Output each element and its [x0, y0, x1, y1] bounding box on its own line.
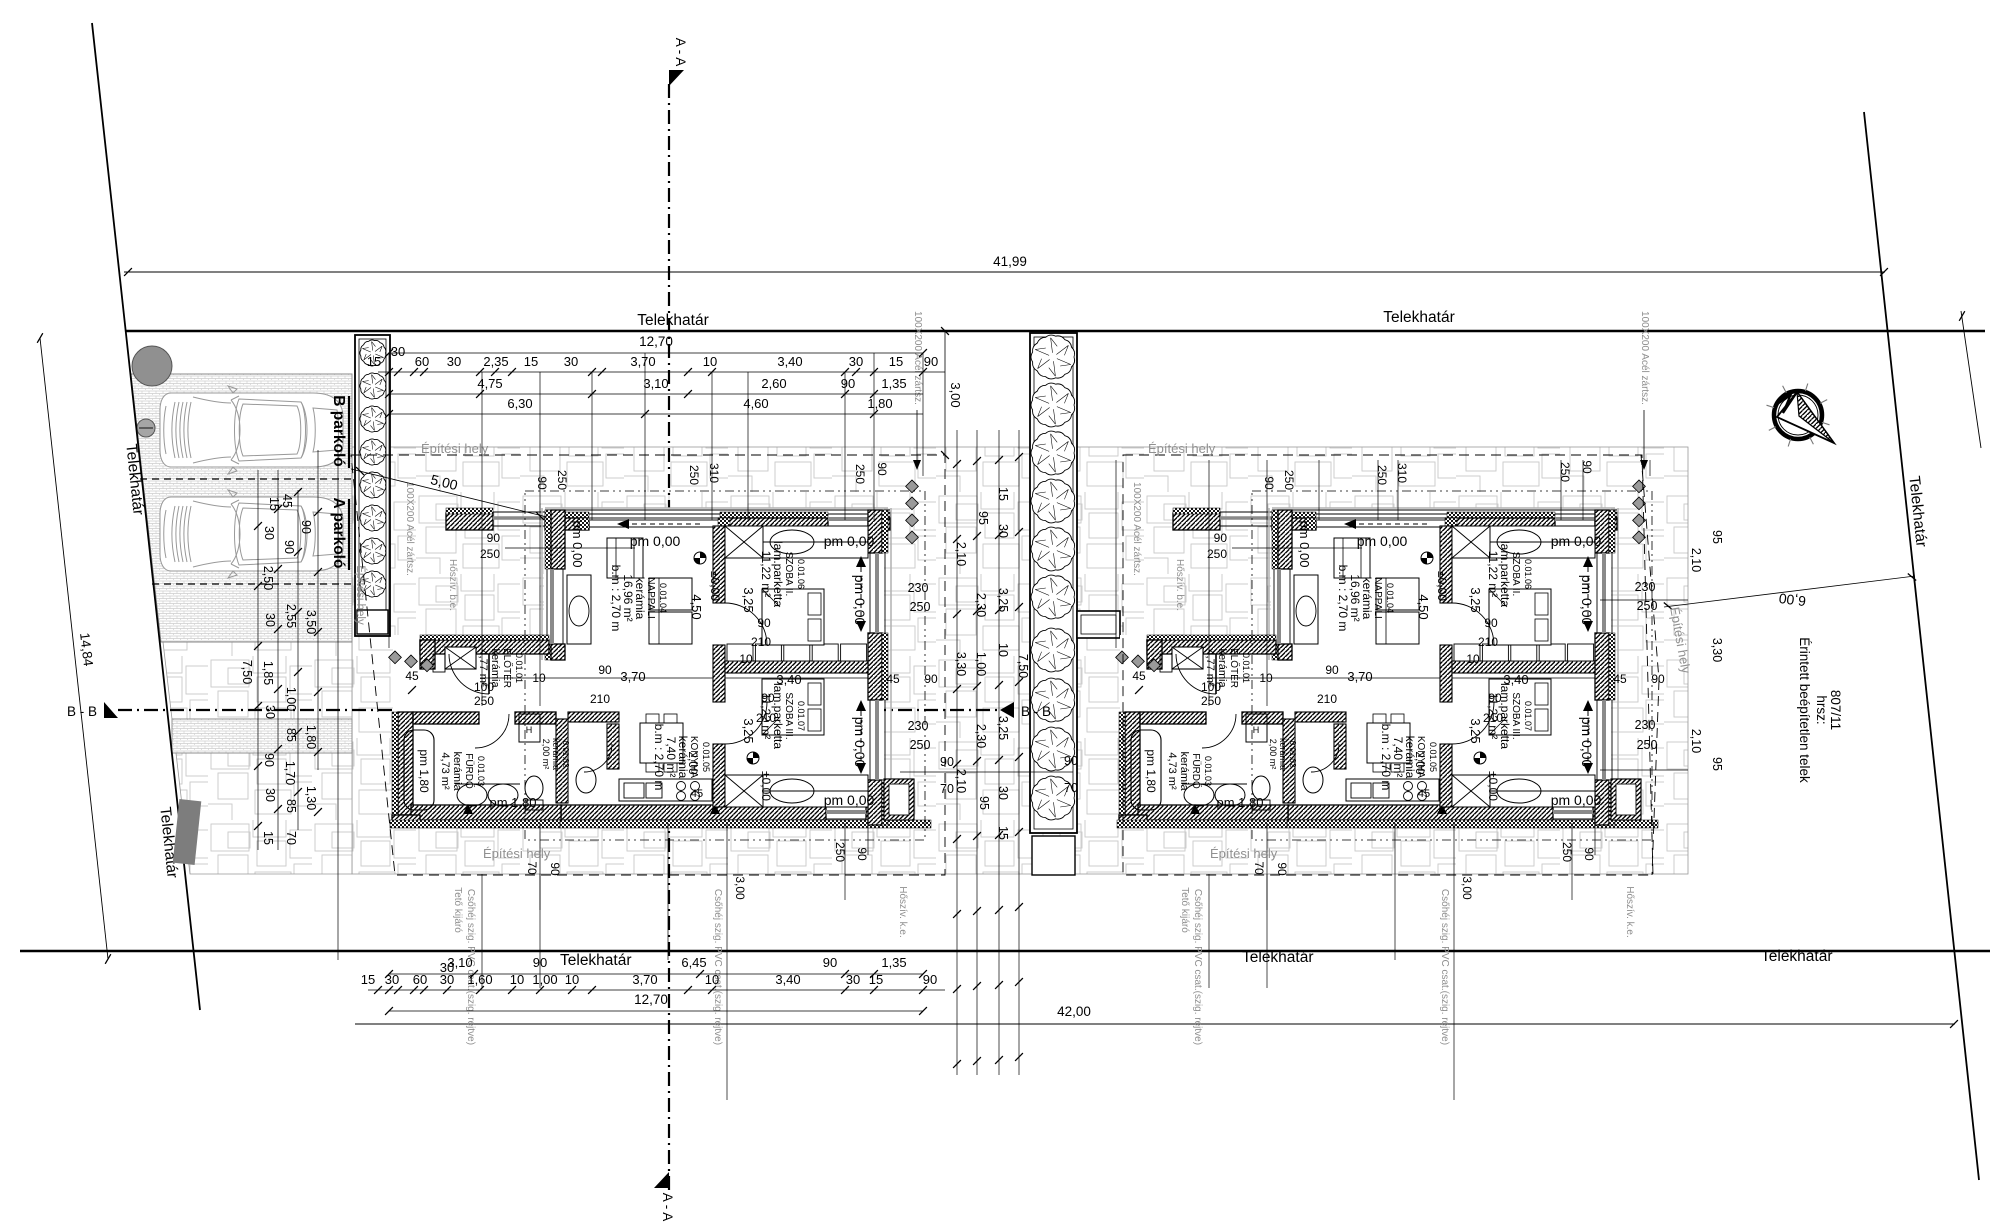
- svg-text:210: 210: [1483, 711, 1503, 725]
- svg-text:Csőhéj szig. PVC csat.(szig. r: Csőhéj szig. PVC csat.(szig. rejtve): [712, 889, 723, 1045]
- svg-text:B parkoló: B parkoló: [330, 395, 347, 466]
- svg-text:90: 90: [924, 354, 938, 369]
- svg-text:1,80: 1,80: [304, 725, 318, 749]
- svg-text:30: 30: [846, 972, 860, 987]
- svg-text:3,25: 3,25: [1468, 587, 1483, 612]
- svg-text:95: 95: [1710, 757, 1724, 771]
- svg-text:4,75: 4,75: [477, 376, 502, 391]
- svg-text:1,35: 1,35: [881, 376, 906, 391]
- svg-text:1,30: 1,30: [304, 786, 318, 810]
- svg-text:Építési hely: Építési hely: [483, 846, 551, 861]
- svg-text:3,30: 3,30: [954, 652, 968, 676]
- svg-text:2,35: 2,35: [483, 354, 508, 369]
- svg-text:Telekhatár: Telekhatár: [1383, 309, 1455, 326]
- svg-text:90: 90: [1325, 663, 1339, 677]
- svg-text:90: 90: [535, 476, 549, 490]
- svg-text:0.01.04: 0.01.04: [1385, 583, 1395, 613]
- svg-text:0.01.04: 0.01.04: [658, 583, 668, 613]
- svg-text:ELŐTÉR: ELŐTÉR: [1228, 648, 1242, 688]
- svg-text:6,30: 6,30: [507, 396, 532, 411]
- svg-text:10: 10: [1466, 652, 1480, 666]
- svg-text:807/11: 807/11: [1828, 690, 1843, 730]
- svg-text:kerámia: kerámia: [1360, 577, 1374, 620]
- svg-text:0.01.06: 0.01.06: [796, 559, 806, 589]
- svg-text:3,00: 3,00: [1460, 876, 1474, 900]
- svg-text:H: H: [526, 725, 533, 735]
- svg-text:90: 90: [1580, 460, 1594, 474]
- svg-text:kerámia: kerámia: [1278, 738, 1288, 770]
- svg-text:45: 45: [886, 672, 900, 686]
- svg-text:10: 10: [565, 972, 579, 987]
- svg-text:90: 90: [761, 691, 775, 705]
- svg-text:30: 30: [391, 344, 405, 359]
- svg-text:0.01.05: 0.01.05: [1428, 742, 1438, 772]
- svg-text:Építési hely: Építési hely: [1148, 441, 1216, 456]
- svg-text:95: 95: [977, 796, 991, 810]
- svg-text:Tető kijáró: Tető kijáró: [452, 887, 463, 933]
- svg-text:FÜRDŐ: FÜRDŐ: [1190, 753, 1204, 789]
- svg-text:0.01.06: 0.01.06: [1523, 559, 1533, 589]
- svg-text:90: 90: [1214, 531, 1228, 545]
- svg-text:30: 30: [262, 526, 276, 540]
- svg-text:±0,00: ±0,00: [1435, 571, 1449, 601]
- svg-text:230: 230: [908, 719, 929, 733]
- svg-text:3,30: 3,30: [1710, 638, 1724, 662]
- svg-text:250: 250: [910, 600, 931, 614]
- svg-text:Telekhatár: Telekhatár: [560, 952, 632, 969]
- svg-text:NAPPALI: NAPPALI: [645, 577, 656, 619]
- svg-text:70: 70: [525, 861, 539, 875]
- svg-text:pm 0,00: pm 0,00: [824, 533, 875, 549]
- svg-text:A - A: A - A: [660, 1193, 675, 1222]
- svg-text:FÜRDŐ: FÜRDŐ: [463, 753, 477, 789]
- svg-text:2,55: 2,55: [284, 604, 298, 628]
- svg-text:12,70: 12,70: [634, 992, 668, 1007]
- svg-text:Hőszív. k.e.: Hőszív. k.e.: [897, 886, 908, 938]
- svg-text:45: 45: [1132, 669, 1146, 683]
- svg-text:42,00: 42,00: [1057, 1004, 1091, 1019]
- svg-text:90: 90: [533, 955, 547, 970]
- svg-text:230: 230: [908, 581, 929, 595]
- svg-text:NAPPALI: NAPPALI: [1372, 577, 1383, 619]
- svg-text:11,22 m²: 11,22 m²: [1486, 551, 1500, 597]
- svg-text:250: 250: [910, 738, 931, 752]
- svg-text:2,00 m²: 2,00 m²: [1268, 739, 1278, 770]
- svg-text:10: 10: [739, 652, 753, 666]
- svg-text:0.01.03: 0.01.03: [1203, 756, 1213, 786]
- svg-text:1,80: 1,80: [867, 396, 892, 411]
- svg-text:2,00: 2,00: [1413, 751, 1427, 775]
- svg-text:1,35: 1,35: [881, 955, 906, 970]
- svg-text:pm 1,80: pm 1,80: [417, 749, 431, 793]
- svg-text:90: 90: [548, 862, 562, 876]
- svg-text:Építési hely: Építési hely: [1210, 846, 1278, 861]
- svg-text:3,25: 3,25: [1468, 718, 1483, 743]
- svg-text:250: 250: [474, 694, 494, 708]
- svg-text:70: 70: [284, 831, 298, 845]
- svg-text:4,73 m²: 4,73 m²: [1166, 752, 1178, 790]
- svg-text:b.m : 2,70 m: b.m : 2,70 m: [1336, 565, 1350, 632]
- svg-text:3,00: 3,00: [948, 382, 963, 407]
- svg-text:15: 15: [524, 354, 538, 369]
- svg-text:30: 30: [564, 354, 578, 369]
- svg-text:0.01.07: 0.01.07: [796, 701, 806, 731]
- svg-text:1,60: 1,60: [467, 972, 492, 987]
- svg-text:lam.parketta: lam.parketta: [1498, 541, 1512, 607]
- svg-text:pm 1,80: pm 1,80: [1217, 795, 1264, 810]
- svg-text:3,25: 3,25: [996, 716, 1010, 740]
- svg-text:Hőszív. b.e.: Hőszív. b.e.: [1174, 559, 1185, 611]
- svg-text:90: 90: [855, 847, 869, 861]
- svg-text:4,50: 4,50: [689, 594, 704, 619]
- svg-text:70: 70: [1064, 781, 1078, 795]
- svg-text:4,50: 4,50: [1416, 594, 1431, 619]
- svg-text:100X200 Acél zártsz.: 100X200 Acél zártsz.: [912, 311, 923, 405]
- svg-text:kerámia: kerámia: [451, 751, 463, 791]
- svg-text:210: 210: [751, 635, 771, 649]
- svg-text:0.01.01: 0.01.01: [514, 653, 524, 683]
- svg-text:b.m : 2,70 m: b.m : 2,70 m: [652, 724, 666, 791]
- svg-text:pm 0,00: pm 0,00: [1357, 533, 1408, 549]
- svg-text:250: 250: [555, 470, 569, 490]
- svg-text:7,40 m²: 7,40 m²: [1391, 737, 1405, 778]
- svg-text:b.m : 2,70 m: b.m : 2,70 m: [609, 565, 623, 632]
- svg-text:210: 210: [1317, 692, 1337, 706]
- svg-text:ELŐTÉR: ELŐTÉR: [501, 648, 515, 688]
- svg-text:30: 30: [849, 354, 863, 369]
- svg-text:pm 0,00: pm 0,00: [1297, 521, 1312, 568]
- svg-text:Telekhatár: Telekhatár: [1761, 948, 1833, 965]
- svg-text:3,25: 3,25: [996, 588, 1010, 612]
- svg-text:2,00 m²: 2,00 m²: [541, 739, 551, 770]
- svg-text:kerámia: kerámia: [1178, 751, 1190, 791]
- svg-text:2,10: 2,10: [1689, 548, 1703, 572]
- svg-text:250: 250: [1282, 470, 1296, 490]
- svg-text:250: 250: [1637, 738, 1658, 752]
- svg-text:90: 90: [924, 672, 938, 686]
- svg-text:3,25: 3,25: [741, 587, 756, 612]
- svg-text:1,00: 1,00: [532, 972, 557, 987]
- svg-text:30: 30: [385, 972, 399, 987]
- svg-text:45: 45: [280, 494, 294, 508]
- svg-text:16,96 m²: 16,96 m²: [621, 574, 635, 621]
- svg-text:15: 15: [996, 826, 1010, 840]
- svg-text:lam.parketta: lam.parketta: [771, 541, 785, 607]
- svg-text:Építési hely: Építési hely: [354, 565, 367, 625]
- svg-text:15: 15: [996, 487, 1010, 501]
- svg-text:90: 90: [1262, 476, 1276, 490]
- svg-text:12,70: 12,70: [639, 334, 673, 349]
- svg-text:pm 0,00: pm 0,00: [1579, 575, 1595, 626]
- svg-text:2,60: 2,60: [761, 376, 786, 391]
- svg-text:3,10: 3,10: [643, 376, 668, 391]
- svg-text:SZOBA II.: SZOBA II.: [1510, 552, 1521, 596]
- svg-text:30: 30: [440, 960, 454, 975]
- svg-text:2,10: 2,10: [954, 769, 968, 793]
- svg-text:Érintett beépítetlen telek: Érintett beépítetlen telek: [1797, 637, 1812, 783]
- svg-text:3,40: 3,40: [775, 972, 800, 987]
- svg-text:3,25: 3,25: [741, 718, 756, 743]
- svg-text:SZOBA III.: SZOBA III.: [1510, 692, 1521, 739]
- svg-text:Telekhatár: Telekhatár: [1242, 949, 1314, 966]
- svg-text:100: 100: [474, 680, 494, 694]
- svg-text:SZOBA II.: SZOBA II.: [783, 552, 794, 596]
- svg-text:Csőhéj szig. PVC csat.(szig. r: Csőhéj szig. PVC csat.(szig. rejtve): [1192, 889, 1203, 1045]
- svg-text:7,40 m²: 7,40 m²: [664, 737, 678, 778]
- svg-text:45: 45: [691, 788, 703, 800]
- svg-text:250: 250: [1558, 462, 1572, 482]
- svg-text:0.01.02: 0.01.02: [561, 741, 570, 768]
- svg-text:70: 70: [940, 782, 954, 796]
- svg-text:7,50: 7,50: [240, 660, 254, 684]
- svg-text:100X200 Acél zártsz.: 100X200 Acél zártsz.: [404, 482, 415, 576]
- svg-text:±0,00: ±0,00: [708, 571, 722, 601]
- svg-text:10: 10: [703, 354, 717, 369]
- svg-text:7,50: 7,50: [1016, 654, 1030, 678]
- svg-text:90: 90: [299, 520, 313, 534]
- svg-text:90: 90: [923, 972, 937, 987]
- svg-text:250: 250: [1375, 465, 1389, 485]
- svg-text:3,40: 3,40: [1503, 672, 1528, 687]
- svg-text:15: 15: [889, 354, 903, 369]
- svg-text:310: 310: [1395, 463, 1409, 483]
- svg-text:11,22 m²: 11,22 m²: [759, 551, 773, 597]
- svg-text:1,00: 1,00: [284, 687, 298, 711]
- svg-text:A - A: A - A: [673, 38, 688, 67]
- svg-text:90: 90: [940, 755, 954, 769]
- svg-text:2,10: 2,10: [954, 542, 968, 566]
- svg-text:30: 30: [263, 788, 277, 802]
- svg-text:6,45: 6,45: [681, 955, 706, 970]
- svg-text:15: 15: [869, 972, 883, 987]
- svg-text:100X200 Acél zártsz.: 100X200 Acél zártsz.: [1639, 311, 1650, 405]
- svg-text:Csőhéj szig. PVC csat.(szig. r: Csőhéj szig. PVC csat.(szig. rejtve): [1439, 889, 1450, 1045]
- svg-text:0.01.05: 0.01.05: [701, 742, 711, 772]
- svg-text:2,30: 2,30: [974, 724, 988, 748]
- svg-text:Hőszív. b.e.: Hőszív. b.e.: [447, 559, 458, 611]
- svg-text:90: 90: [1064, 754, 1078, 768]
- svg-text:90: 90: [1582, 847, 1596, 861]
- svg-text:1,70: 1,70: [283, 761, 297, 785]
- svg-text:15: 15: [361, 972, 375, 987]
- svg-text:250: 250: [853, 464, 867, 484]
- svg-text:85: 85: [284, 799, 298, 813]
- svg-text:70: 70: [1252, 861, 1266, 875]
- svg-text:210: 210: [1478, 635, 1498, 649]
- svg-text:3,70: 3,70: [630, 354, 655, 369]
- svg-text:2,00: 2,00: [686, 751, 700, 775]
- svg-text:90: 90: [875, 462, 889, 476]
- svg-text:60: 60: [415, 354, 429, 369]
- svg-text:10: 10: [510, 972, 524, 987]
- svg-text:90: 90: [1275, 862, 1289, 876]
- svg-text:1,00: 1,00: [974, 652, 988, 676]
- svg-text:pm 0,00: pm 0,00: [824, 792, 875, 808]
- svg-text:6,00: 6,00: [1778, 590, 1807, 609]
- svg-text:±0,00: ±0,00: [759, 771, 773, 801]
- svg-text:30: 30: [996, 786, 1010, 800]
- svg-text:90: 90: [1651, 672, 1665, 686]
- svg-text:30: 30: [447, 354, 461, 369]
- svg-text:90: 90: [487, 531, 501, 545]
- svg-text:H: H: [1253, 725, 1260, 735]
- svg-text:41,99: 41,99: [993, 254, 1027, 269]
- svg-text:pm 0,00: pm 0,00: [570, 521, 585, 568]
- svg-text:10: 10: [996, 643, 1010, 657]
- svg-text:2,50: 2,50: [261, 566, 275, 590]
- svg-text:95: 95: [976, 511, 990, 525]
- svg-text:pm 0,00: pm 0,00: [630, 533, 681, 549]
- svg-text:pm 0,00: pm 0,00: [852, 575, 868, 626]
- svg-text:pm 0,00: pm 0,00: [852, 717, 868, 768]
- svg-text:30: 30: [263, 613, 277, 627]
- svg-text:210: 210: [756, 711, 776, 725]
- svg-text:250: 250: [687, 465, 701, 485]
- svg-text:210: 210: [590, 692, 610, 706]
- svg-text:45: 45: [1418, 788, 1430, 800]
- svg-text:B - B: B - B: [67, 704, 97, 719]
- svg-text:90: 90: [841, 376, 855, 391]
- svg-text:90: 90: [282, 540, 296, 554]
- svg-text:pm 0,00: pm 0,00: [1551, 792, 1602, 808]
- svg-text:0.01.02: 0.01.02: [1288, 741, 1297, 768]
- svg-text:3,50: 3,50: [304, 610, 318, 634]
- svg-text:kerámia: kerámia: [551, 738, 561, 770]
- svg-text:15: 15: [367, 354, 381, 369]
- svg-text:60: 60: [413, 972, 427, 987]
- svg-text:0.01.07: 0.01.07: [1523, 701, 1533, 731]
- svg-text:±0,00: ±0,00: [1486, 771, 1500, 801]
- svg-text:90: 90: [1488, 691, 1502, 705]
- svg-text:3,70: 3,70: [632, 972, 657, 987]
- svg-text:100: 100: [1201, 680, 1221, 694]
- svg-text:b.m : 2,70 m: b.m : 2,70 m: [1379, 724, 1393, 791]
- svg-text:3,70: 3,70: [1347, 669, 1372, 684]
- svg-text:95: 95: [1710, 530, 1724, 544]
- svg-text:90: 90: [598, 663, 612, 677]
- svg-text:230: 230: [1635, 718, 1656, 732]
- svg-text:SZOBA III.: SZOBA III.: [783, 692, 794, 739]
- svg-text:4,60: 4,60: [743, 396, 768, 411]
- svg-text:85: 85: [284, 728, 298, 742]
- svg-text:Hőszív. k.e.: Hőszív. k.e.: [1624, 886, 1635, 938]
- svg-text:10: 10: [705, 972, 719, 987]
- svg-text:pm 0,00: pm 0,00: [1579, 717, 1595, 768]
- svg-text:250: 250: [1207, 547, 1227, 561]
- svg-text:0.01.03: 0.01.03: [476, 756, 486, 786]
- svg-text:15: 15: [261, 831, 275, 845]
- svg-text:310: 310: [707, 463, 721, 483]
- svg-text:45: 45: [405, 669, 419, 683]
- svg-text:3,40: 3,40: [776, 672, 801, 687]
- svg-text:pm 1,80: pm 1,80: [1144, 749, 1158, 793]
- svg-text:2,30: 2,30: [974, 593, 988, 617]
- svg-text:pm 1,80: pm 1,80: [490, 795, 537, 810]
- svg-text:250: 250: [480, 547, 500, 561]
- svg-text:90: 90: [262, 753, 276, 767]
- svg-text:3,70: 3,70: [620, 669, 645, 684]
- svg-text:100X200 Acél zártsz.: 100X200 Acél zártsz.: [1131, 482, 1142, 576]
- svg-text:Építési hely: Építési hely: [421, 441, 489, 456]
- svg-text:90: 90: [1484, 616, 1498, 630]
- svg-text:16,96 m²: 16,96 m²: [1348, 574, 1362, 621]
- svg-text:45: 45: [1613, 672, 1627, 686]
- svg-text:90: 90: [823, 955, 837, 970]
- svg-text:90: 90: [757, 616, 771, 630]
- svg-text:4,73 m²: 4,73 m²: [439, 752, 451, 790]
- svg-text:3,40: 3,40: [777, 354, 802, 369]
- svg-text:2,10: 2,10: [1689, 729, 1703, 753]
- svg-text:3,00: 3,00: [733, 876, 747, 900]
- svg-text:250: 250: [1637, 599, 1658, 613]
- svg-text:B - B: B - B: [1021, 704, 1051, 719]
- svg-text:A parkoló: A parkoló: [330, 498, 347, 569]
- svg-text:250: 250: [1201, 694, 1221, 708]
- svg-text:0.01.01: 0.01.01: [1241, 653, 1251, 683]
- svg-text:1,85: 1,85: [261, 661, 275, 685]
- svg-text:Tető kijáró: Tető kijáró: [1179, 887, 1190, 933]
- svg-text:hrsz:: hrsz:: [1814, 695, 1829, 724]
- svg-text:Telekhatár: Telekhatár: [637, 312, 709, 329]
- svg-text:pm 0,00: pm 0,00: [1551, 533, 1602, 549]
- svg-text:30: 30: [263, 705, 277, 719]
- svg-text:kerámia: kerámia: [633, 577, 647, 620]
